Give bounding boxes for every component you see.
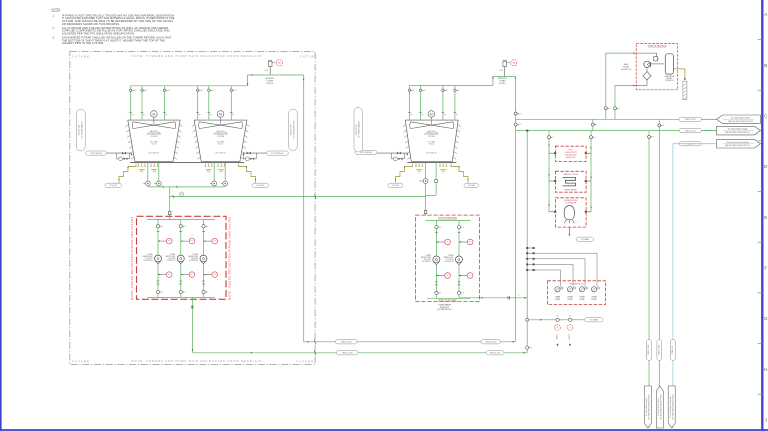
svg-text:FUTURE: FUTURE — [72, 360, 90, 364]
sand filter suction line — [605, 53, 607, 119]
svg-text:4" Tower Water Return: 4" Tower Water Return — [657, 398, 660, 416]
svg-text:(VS-BTU-01): (VS-BTU-01) — [566, 157, 576, 159]
svg-text:TWR-4"-02S: TWR-4"-02S — [648, 344, 650, 355]
pot feeder vessel — [564, 206, 574, 220]
bottom return tag L — [336, 340, 358, 344]
pump leg VS-PMP-01 — [157, 220, 159, 298]
chemical injection taps — [526, 247, 528, 249]
P-trap riser tower 3 — [492, 76, 494, 85]
sample cooler coil — [563, 178, 576, 186]
svg-text:1749 GPM: 1749 GPM — [150, 136, 158, 138]
svg-text:TWR-12"-001: TWR-12"-001 — [78, 125, 80, 136]
svg-text:(VS-PMP-02): (VS-PMP-02) — [166, 260, 175, 262]
svg-text:12" TOWER RETURN: 12" TOWER RETURN — [293, 120, 295, 138]
tower return long riser (left bank) — [303, 75, 305, 342]
pressure gauge — [459, 275, 467, 277]
makeup water line tower 3 — [377, 152, 407, 154]
svg-text:1163 GPM: 1163 GPM — [446, 259, 454, 261]
return drop tag — [657, 340, 662, 361]
future riser label left — [76, 109, 85, 151]
svg-text:(VS-PMP-01): (VS-PMP-01) — [144, 260, 153, 262]
pressure gauge — [158, 240, 166, 242]
supply drop tag — [647, 340, 652, 361]
svg-text:J: J — [765, 417, 767, 422]
svg-text:1163 GPM: 1163 GPM — [424, 259, 432, 261]
towers 1-2 suction manifold — [148, 186, 225, 188]
svg-text:1749 GPM: 1749 GPM — [428, 136, 436, 138]
blowdown valve 2 — [568, 318, 571, 321]
overflow drain tag — [464, 183, 479, 187]
svg-text:VENDOR PACKAGE: VENDOR PACKAGE — [648, 44, 667, 47]
sample points — [555, 325, 561, 331]
pump skid suction feed — [169, 187, 171, 216]
off-page: 4in compressed air — [717, 139, 761, 148]
tower CT-2 fan motor M — [220, 117, 222, 125]
makeup tag tower 1 — [86, 151, 107, 155]
tower CT-3 fan motor M — [430, 117, 432, 125]
tower water pump VS-PMP-05 — [456, 256, 463, 263]
svg-text:PUMP: PUMP — [555, 299, 561, 301]
tower water pump VS-PMP-03 — [200, 255, 207, 262]
svg-text:TO DRAIN: TO DRAIN — [581, 238, 590, 241]
pump skid discharge run (supply) — [192, 352, 527, 354]
P-trap vacuum breaker (left) — [269, 67, 271, 76]
overflow drain tag — [388, 183, 403, 187]
spray riser 4 towers 1-2 — [197, 86, 199, 120]
sand media vessel — [665, 54, 673, 74]
chemical metering pump at x=570.0 — [567, 287, 572, 292]
tower 3 basin outlet legs — [425, 163, 427, 215]
tower return main riser — [515, 76, 517, 341]
svg-text:12" Tower Water Supply: 12" Tower Water Supply — [728, 128, 748, 131]
sand filter pump — [644, 61, 650, 67]
svg-text:HIGHEST PIPE IN THE SYSTEM.: HIGHEST PIPE IN THE SYSTEM. — [62, 41, 104, 45]
towers 1-2 common basin — [130, 161, 244, 163]
tower CT-3 fan — [410, 122, 432, 129]
svg-text:OCD-001: OCD-001 — [392, 185, 399, 187]
svg-text:TOWER: TOWER — [425, 255, 431, 257]
tower water pump VS-PMP-02 — [177, 255, 184, 262]
svg-text:NOTE: REUSE RELOCATED PIPING A: NOTE: REUSE RELOCATED PIPING AND VALVES — [228, 216, 232, 300]
svg-text:(VS-CTWR-01): (VS-CTWR-01) — [215, 152, 226, 154]
svg-text:LPA-4"-02: LPA-4"-02 — [671, 346, 674, 354]
svg-text:TO DRAIN: TO DRAIN — [590, 319, 599, 322]
tower 2 overflow drain — [239, 164, 258, 184]
svg-text:NOTE: TOWERS AND PUMP SKID REL: NOTE: TOWERS AND PUMP SKID RELOCATED FRO… — [131, 359, 262, 363]
svg-text:COOLING TOWER: COOLING TOWER — [425, 133, 439, 135]
svg-text:12"W-TWR-001: 12"W-TWR-001 — [271, 153, 283, 155]
svg-text:(VS-SMV-01): (VS-SMV-01) — [665, 80, 674, 82]
svg-text:PUMP: PUMP — [579, 299, 585, 301]
bottom supply tag R — [486, 351, 504, 355]
svg-text:OCD-001: OCD-001 — [468, 185, 475, 187]
spray riser 3 tower 3 — [442, 86, 444, 121]
pot feeder drain — [568, 227, 570, 235]
FUTURE relocation zone boundary — [70, 52, 315, 365]
sample loop right leg — [590, 131, 592, 212]
vacuum breaker tag — [276, 60, 282, 66]
svg-text:SEE DWG SMC2-DWG10-PID-107: SEE DWG SMC2-DWG10-PID-107 — [725, 145, 750, 147]
svg-text:12" TOWER WATER: 12" TOWER WATER — [80, 121, 83, 138]
sand filter strainer diamond — [643, 72, 651, 80]
svg-text:OCD-001: OCD-001 — [110, 185, 117, 187]
BTU conductivity controller box — [555, 146, 586, 161]
svg-text:(VS-PMP-03): (VS-PMP-03) — [189, 260, 198, 262]
svg-text:(VS-PMP-SKD-01): (VS-PMP-SKD-01) — [437, 309, 452, 311]
svg-text:M: M — [430, 112, 433, 116]
svg-text:(VS-SFLT-01): (VS-SFLT-01) — [621, 69, 632, 71]
svg-text:FUTURE: FUTURE — [297, 360, 315, 364]
towers 1-2 basin outlet legs — [147, 163, 149, 184]
cooling tower CT-3 body — [405, 120, 458, 161]
sand filter backwash drain — [673, 68, 685, 70]
supply header pipe tag — [679, 129, 702, 133]
relocated pump skid boundary — [137, 216, 227, 299]
svg-text:1749 GPM: 1749 GPM — [217, 136, 225, 138]
vacuum breaker tag — [511, 60, 517, 66]
svg-text:E: E — [764, 215, 767, 220]
svg-text:H: H — [764, 367, 767, 372]
svg-text:NOTE: REUSE RELOCATED PIPING A: NOTE: REUSE RELOCATED PIPING AND VALVES — [130, 216, 134, 300]
bottom connector: supply — [644, 386, 651, 428]
svg-text:TOWER: TOWER — [192, 254, 198, 256]
tower CT-2 fan — [199, 122, 221, 129]
svg-text:SEE DWG SMC2-DWG10-P10-107: SEE DWG SMC2-DWG10-P10-107 — [673, 394, 675, 419]
svg-text:12" TOWER WATER: 12" TOWER WATER — [358, 121, 361, 138]
svg-text:12"W-TWR-001: 12"W-TWR-001 — [90, 153, 102, 155]
svg-text:COOLING TOWER: COOLING TOWER — [214, 133, 228, 135]
open drain stub — [683, 81, 687, 99]
pump skid discharge drop — [191, 297, 193, 352]
inverted P-trap horizontal (left bank) — [248, 74, 304, 76]
svg-text:C: C — [764, 114, 768, 119]
svg-text:POT FEEDER: POT FEEDER — [565, 203, 577, 205]
bottom return tag R — [481, 340, 501, 344]
tower CT-2 side hatching — [192, 124, 195, 126]
supply crossover to vendor skid — [170, 196, 426, 198]
svg-text:VESSEL: VESSEL — [666, 78, 672, 80]
supply riser drain valve — [526, 346, 529, 349]
tower water pump VS-PMP-01 — [155, 255, 162, 262]
overflow drain tag — [105, 183, 122, 187]
svg-text:3.: 3. — [53, 36, 55, 39]
tower CT-1 side hatching — [125, 124, 128, 126]
svg-text:(VS-PMP-05): (VS-PMP-05) — [445, 261, 454, 263]
spray riser 2 tower 3 — [420, 86, 422, 121]
svg-text:SAND: SAND — [624, 63, 629, 66]
spray riser 1 tower 3 — [409, 86, 411, 121]
blowdown drain tag — [585, 318, 604, 322]
svg-text:TWR-12"-02D: TWR-12"-02D — [291, 123, 293, 135]
svg-text:TWR-12"-001: TWR-12"-001 — [356, 124, 358, 135]
svg-text:WATER METER: WATER METER — [565, 188, 578, 191]
svg-text:2.: 2. — [53, 27, 55, 30]
svg-text:4" Low Pressure Comp. Air: 4" Low Pressure Comp. Air — [726, 141, 748, 144]
svg-text:TWR-12"-02D: TWR-12"-02D — [341, 342, 353, 344]
svg-text:NOTE: TOWERS AND PUMP SKID REL: NOTE: TOWERS AND PUMP SKID RELOCATED FRO… — [131, 54, 262, 58]
svg-text:B: B — [764, 63, 767, 68]
pressure gauge — [459, 241, 467, 243]
tower return branch to towers 1-2 (bottom run) — [304, 341, 516, 343]
pump skid suction manifold — [147, 219, 215, 221]
makeup water line tower 1 — [107, 152, 132, 154]
vendor skid suction manifold — [426, 220, 471, 222]
tower 3 basin — [407, 161, 456, 163]
tower 3 overflow drain right — [451, 164, 470, 184]
riser isolation valve lower — [514, 123, 517, 126]
vendor package pump skid boundary — [416, 215, 480, 301]
return header pipe tag — [679, 117, 702, 121]
tower 1 overflow drain — [117, 164, 136, 184]
water meter / heat exchanger box — [555, 171, 586, 192]
tower CT-1 fan motor M — [153, 117, 155, 125]
svg-text:NOTE 3: NOTE 3 — [267, 83, 273, 85]
blowdown valve 1 — [556, 318, 559, 321]
svg-text:(VS-PMP-04): (VS-PMP-04) — [422, 261, 431, 263]
air drop tag — [671, 340, 676, 361]
spray riser 1 towers 1-2 — [130, 86, 132, 120]
chemical metering pump at x=594.0 — [591, 287, 596, 292]
svg-text:VD-110: VD-110 — [151, 143, 156, 145]
12in tower water return header — [516, 118, 717, 120]
sand filter return line — [614, 86, 616, 120]
cooling tower CT-2 body — [194, 120, 247, 161]
header bypass valve — [592, 119, 594, 130]
spray riser 5 towers 1-2 — [208, 86, 210, 120]
chemical metering pump at x=582.0 — [579, 287, 584, 292]
svg-text:12" Tower Water Return: 12" Tower Water Return — [731, 116, 751, 119]
filter feeder box — [555, 198, 586, 227]
sand filter vendor package box — [636, 44, 678, 90]
svg-text:M: M — [219, 112, 222, 116]
svg-text:VENDOR PACKAGE: VENDOR PACKAGE — [438, 216, 457, 219]
svg-text:TOWER: TOWER — [170, 254, 176, 256]
under tower drain fittings — [138, 163, 140, 166]
bottom supply tag L — [337, 351, 359, 355]
chemical metering pump at x=557.5 — [555, 287, 560, 292]
tower CT-3 side hatching — [403, 124, 406, 126]
pump leg VS-PMP-03 — [203, 220, 205, 298]
svg-text:SEE DWG SMC2-DWG10-PID-102: SEE DWG SMC2-DWG10-PID-102 — [725, 132, 750, 134]
svg-text:+2'-8": +2'-8" — [499, 70, 504, 72]
svg-text:SEE DWG SMC2-DWG10-P10-107: SEE DWG SMC2-DWG10-P10-107 — [649, 394, 651, 419]
svg-text:(VS-CTWR-01): (VS-CTWR-01) — [149, 152, 160, 154]
tower water return spray manifold towers 1-2 — [131, 85, 248, 87]
tower 3 overflow drain left — [394, 164, 413, 184]
spray riser 4 tower 3 — [454, 86, 456, 121]
sand filter internal piping — [636, 53, 659, 59]
svg-text:PUMP: PUMP — [591, 299, 597, 301]
svg-text:12"W-TWR-002: 12"W-TWR-002 — [360, 152, 372, 154]
svg-text:(VS-CHM-SKD-01): (VS-CHM-SKD-01) — [569, 283, 584, 285]
svg-text:TWR-12"-01S: TWR-12"-01S — [685, 130, 697, 132]
pressure gauge — [436, 241, 444, 243]
pressure gauge — [436, 275, 444, 277]
bottom connector: return — [656, 386, 663, 428]
tower water pump VS-PMP-04 — [433, 256, 440, 263]
pressure gauge — [181, 274, 189, 276]
comp air pipe tag — [679, 142, 702, 146]
svg-text:NOTE 3: NOTE 3 — [499, 83, 505, 85]
svg-text:TWR-12"-01D: TWR-12"-01D — [685, 119, 697, 121]
svg-text:4" Tower Water Supply: 4" Tower Water Supply — [645, 398, 648, 416]
chemical injection tubing — [535, 270, 561, 287]
pressure gauge — [181, 240, 189, 242]
svg-text:COOLING TOWER: COOLING TOWER — [147, 133, 161, 135]
svg-text:TOWER: TOWER — [147, 254, 153, 256]
pot feeder drain tag — [576, 237, 593, 241]
svg-text:VD-110: VD-110 — [429, 143, 434, 145]
spray riser 3 towers 1-2 — [164, 86, 166, 120]
12in tower water supply header — [516, 130, 717, 132]
return riser left bank up-leg — [247, 75, 249, 86]
sand filter suction valve — [604, 107, 607, 110]
svg-text:TWR-12"-02S: TWR-12"-02S — [490, 353, 502, 355]
vendor skid discharge manifold — [427, 297, 470, 299]
pressure gauge — [204, 274, 212, 276]
svg-text:SAMPLE COOLER: SAMPLE COOLER — [563, 173, 578, 176]
4in tower water supply drop — [648, 131, 650, 428]
svg-text:G: G — [764, 316, 768, 321]
bottom connector: air — [668, 386, 675, 428]
svg-text:1163 GPM: 1163 GPM — [168, 258, 176, 260]
pump leg VS-PMP-02 — [180, 220, 182, 298]
overflow drain tag — [252, 183, 269, 187]
makeup tag tower 3 — [355, 150, 377, 154]
svg-text:TOWER: TOWER — [448, 255, 454, 257]
pump leg VS-PMP-05 — [458, 221, 460, 299]
sample loop left leg — [548, 131, 550, 212]
svg-text:1163 GPM: 1163 GPM — [145, 258, 153, 260]
chemical pump skid box — [548, 281, 606, 305]
spray riser 6 towers 1-2 — [230, 86, 232, 120]
P-trap vacuum breaker (right) — [504, 67, 506, 77]
svg-text:OR REDUCERS SHOWN ON THIS DRAW: OR REDUCERS SHOWN ON THIS DRAWING. — [62, 22, 120, 26]
4in compressed air line — [673, 143, 717, 145]
svg-text:VENDOR PACKAGE: VENDOR PACKAGE — [438, 298, 457, 301]
pressure gauge — [204, 240, 212, 242]
tower water return spray manifold tower 3 — [410, 85, 493, 87]
cooling tower CT-1 body — [128, 120, 180, 161]
vendor skid discharge line — [459, 297, 527, 299]
svg-text:TWR-12"-02S: TWR-12"-02S — [342, 353, 354, 355]
svg-text:JACKETED PER THE PTS INSULATIO: JACKETED PER THE PTS INSULATION SPECIFIC… — [62, 31, 135, 35]
svg-text:1.: 1. — [53, 14, 55, 17]
blowdown drain line — [526, 319, 529, 321]
pump leg VS-PMP-04 — [435, 221, 437, 299]
equalizer tag tower 2 — [267, 151, 289, 155]
svg-text:D: D — [764, 164, 768, 169]
svg-text:M: M — [152, 112, 155, 116]
svg-text:SEE DWG SMC2-DWG10-P10-107: SEE DWG SMC2-DWG10-P10-107 — [661, 394, 663, 419]
svg-text:TWR-12"-02D: TWR-12"-02D — [485, 342, 497, 344]
tower water supply riser from pump skids — [526, 131, 528, 353]
tower CT-1 fan — [132, 122, 154, 129]
off-page: 12in tower water supply — [717, 126, 761, 135]
svg-text:VD-110: VD-110 — [218, 143, 223, 145]
riser isolation valve upper — [514, 112, 517, 115]
svg-text:F: F — [764, 265, 767, 270]
spray riser 2 towers 1-2 — [141, 86, 143, 120]
svg-text:FUTURE: FUTURE — [300, 54, 318, 58]
tower3 makeup label — [354, 108, 363, 153]
svg-text:+2'-8": +2'-8" — [264, 70, 269, 72]
svg-text:(VS-CTWR-01): (VS-CTWR-01) — [426, 152, 437, 154]
svg-text:OCD-001: OCD-001 — [257, 185, 264, 187]
4in tower water return drop — [658, 119, 660, 428]
sand filter return valve — [614, 107, 617, 110]
svg-text:4" Low Pressure Comp. Air: 4" Low Pressure Comp. Air — [669, 396, 672, 418]
pump skid discharge manifold — [147, 296, 215, 298]
return riser label — [289, 109, 298, 151]
svg-text:1163 GPM: 1163 GPM — [191, 258, 199, 260]
inverted P-trap horizontal (right) — [493, 75, 516, 77]
svg-text:SEE DWG SMC2-DWG10-PID-102: SEE DWG SMC2-DWG10-PID-102 — [728, 121, 753, 123]
off-page: 12in tower water return — [717, 115, 761, 124]
pressure gauge — [158, 274, 166, 276]
svg-text:TWR-4"-02D: TWR-4"-02D — [658, 344, 660, 355]
svg-text:PUMP: PUMP — [567, 299, 573, 301]
svg-text:FUTURE: FUTURE — [72, 54, 90, 58]
equalizer line tower 2 — [243, 152, 266, 154]
